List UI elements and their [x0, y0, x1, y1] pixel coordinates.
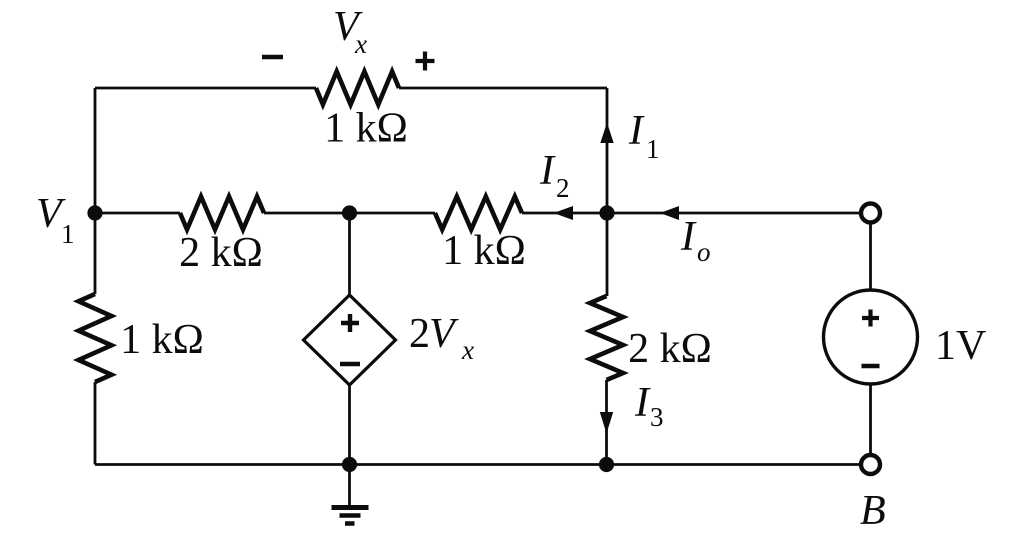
svg-text:I: I — [539, 148, 556, 194]
svg-text:2: 2 — [556, 173, 570, 203]
svg-text:o: o — [697, 237, 711, 267]
svg-text:1 kΩ: 1 kΩ — [324, 106, 408, 152]
svg-text:2 kΩ: 2 kΩ — [179, 230, 263, 276]
svg-text:I: I — [680, 214, 697, 260]
svg-text:1 kΩ: 1 kΩ — [120, 317, 204, 363]
svg-text:1: 1 — [646, 134, 660, 164]
svg-text:x: x — [354, 29, 367, 59]
svg-text:I: I — [634, 380, 651, 426]
svg-text:2 kΩ: 2 kΩ — [628, 326, 712, 372]
svg-text:I: I — [628, 108, 645, 154]
svg-text:B: B — [860, 488, 886, 534]
svg-text:V: V — [429, 311, 459, 357]
svg-text:1V: 1V — [935, 323, 986, 369]
svg-text:x: x — [461, 335, 474, 365]
svg-text:3: 3 — [650, 402, 664, 432]
svg-text:2: 2 — [409, 311, 430, 357]
svg-text:1: 1 — [61, 219, 75, 249]
svg-text:1 kΩ: 1 kΩ — [442, 228, 526, 274]
